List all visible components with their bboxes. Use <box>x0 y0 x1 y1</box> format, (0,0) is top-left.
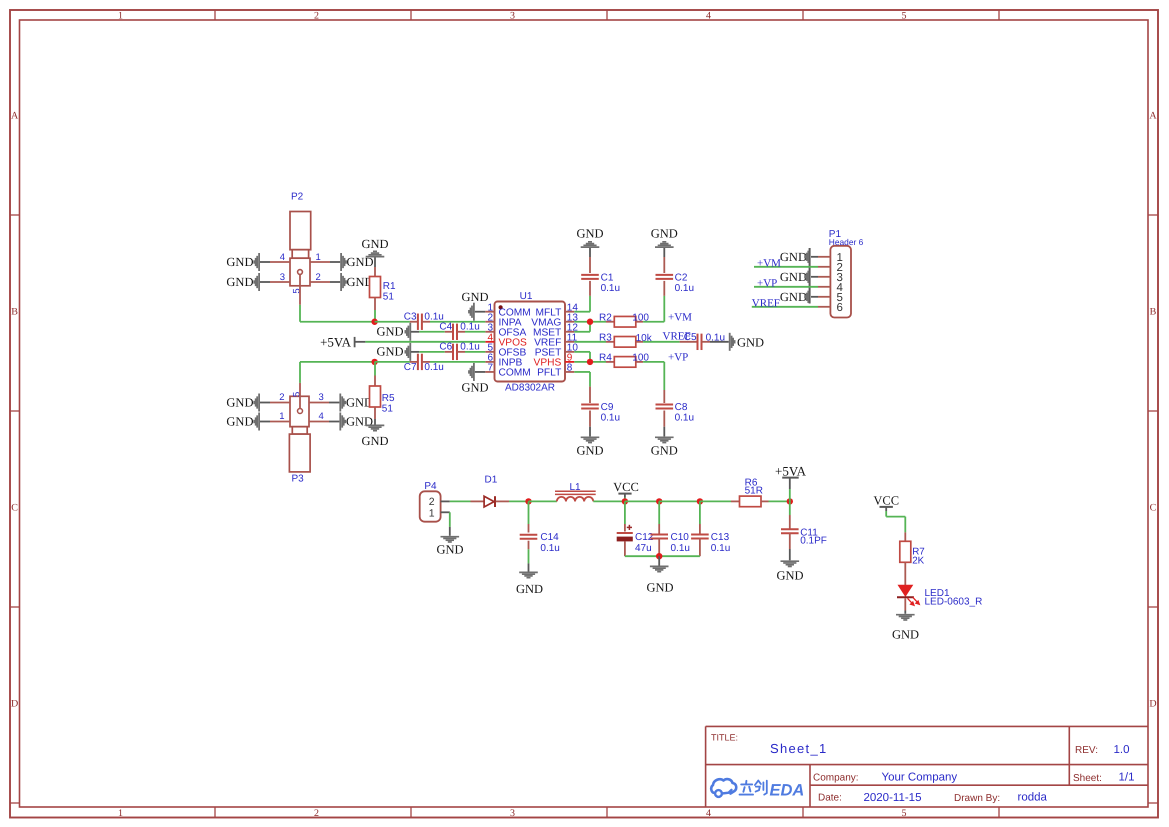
svg-text:GND: GND <box>461 380 488 394</box>
wire pin12 up to node <box>574 331 590 333</box>
connector P2 body <box>290 212 311 250</box>
svg-text:Company:: Company: <box>813 772 859 783</box>
C13 top wire <box>699 501 701 524</box>
wire VREF to P1 pin6 <box>752 306 818 308</box>
wire VCC to R7 <box>885 511 887 517</box>
capacitor C6 <box>452 344 454 360</box>
svg-text:EDA: EDA <box>770 781 805 799</box>
svg-text:GND: GND <box>892 628 919 642</box>
wire +5VA to U1 pin4 <box>355 341 366 343</box>
svg-text:3: 3 <box>319 392 324 403</box>
svg-text:2: 2 <box>314 11 319 22</box>
wire VCC to C10 node <box>625 500 659 502</box>
node C13 <box>697 498 703 504</box>
svg-text:Sheet:: Sheet: <box>1073 773 1102 784</box>
C2 bottom wire <box>663 281 665 296</box>
ground P2 pin1 <box>340 253 342 271</box>
R7 to LED wire <box>904 562 906 585</box>
capacitor C13 <box>691 534 709 536</box>
svg-text:P3: P3 <box>292 473 305 484</box>
svg-text:P4: P4 <box>424 481 437 492</box>
svg-text:VCC: VCC <box>873 494 899 508</box>
svg-text:1: 1 <box>316 252 321 263</box>
svg-text:4: 4 <box>706 11 711 22</box>
wire C13 to R6 <box>700 500 731 502</box>
svg-text:2: 2 <box>316 272 321 283</box>
wire +VP to P1 pin4 <box>754 286 818 288</box>
svg-text:47u: 47u <box>635 543 652 554</box>
wire R6 to +5VA node <box>761 500 769 502</box>
P3 pin wires <box>270 402 290 404</box>
svg-text:D1: D1 <box>485 475 498 486</box>
ground P2 pin2 <box>340 273 342 291</box>
svg-text:2K: 2K <box>912 555 924 566</box>
svg-text:R4: R4 <box>599 352 612 363</box>
ground P3 pin4 <box>339 413 341 431</box>
svg-text:Date:: Date: <box>818 792 842 803</box>
svg-text:C: C <box>11 503 18 514</box>
svg-text:0.1u: 0.1u <box>460 321 479 332</box>
ground below C8 <box>655 436 674 438</box>
svg-text:3: 3 <box>510 11 515 22</box>
capacitor C10 <box>650 534 668 536</box>
ground below C11 <box>781 560 800 562</box>
ground P2 pin4 <box>258 253 260 271</box>
C1 bottom wire <box>589 281 591 296</box>
P1 gnd bus bar <box>809 248 811 304</box>
wire R2 to +VM <box>636 321 643 323</box>
svg-text:0.1u: 0.1u <box>460 342 479 353</box>
svg-text:0.1u: 0.1u <box>675 283 694 294</box>
svg-text:2: 2 <box>314 808 319 819</box>
capacitor C8 <box>656 404 674 406</box>
resistor R1 <box>370 277 381 298</box>
svg-text:R2: R2 <box>599 312 612 323</box>
svg-text:C5: C5 <box>684 332 697 343</box>
svg-text:2: 2 <box>279 392 284 403</box>
resistor R2 <box>614 316 636 327</box>
node +5VA/C11 <box>787 498 793 504</box>
ground above C2 <box>655 246 674 248</box>
node D1/C14/L1 <box>525 498 531 504</box>
svg-text:COMM: COMM <box>499 368 531 379</box>
wire C6 to U1 pin5 <box>457 351 465 353</box>
ground right of C5 <box>729 333 731 351</box>
capacitor C11 <box>781 528 799 530</box>
U1 pin7 gnd wire <box>475 371 486 373</box>
LED LED1 <box>898 585 912 596</box>
node R5/P3/C7 <box>371 359 377 365</box>
wire R4 to +VP <box>636 361 643 363</box>
svg-text:GND: GND <box>651 226 678 240</box>
svg-text:6: 6 <box>837 302 843 314</box>
diode D1 <box>484 496 494 507</box>
wire node to L1 <box>529 500 557 502</box>
C13 bottom wire <box>699 539 701 557</box>
svg-text:C13: C13 <box>711 532 730 543</box>
resistor R4 <box>614 357 636 368</box>
wire U1 pin8 to C9 <box>574 371 590 373</box>
svg-text:LED-0603_R: LED-0603_R <box>925 597 983 608</box>
svg-text:+VM: +VM <box>757 257 781 269</box>
wire C10 to C13 node <box>659 500 700 502</box>
svg-text:0.1u: 0.1u <box>601 283 620 294</box>
ground below bus <box>650 565 669 567</box>
ground below R5 <box>366 424 385 426</box>
wire U1 pin9 to R4 <box>574 361 606 363</box>
svg-text:0.1u: 0.1u <box>675 412 694 423</box>
capacitor C5 <box>697 334 699 350</box>
svg-text:Sheet_1: Sheet_1 <box>770 741 828 756</box>
svg-text:4: 4 <box>280 252 285 263</box>
svg-text:VREF: VREF <box>752 297 780 309</box>
P4 pin2 wire <box>441 500 450 502</box>
svg-text:D: D <box>11 699 18 710</box>
svg-text:GND: GND <box>226 415 253 429</box>
wire R3 to C5 <box>636 341 643 343</box>
svg-text:GND: GND <box>226 255 253 269</box>
svg-text:GND: GND <box>377 345 404 359</box>
wire gnd to C6 <box>411 351 419 353</box>
svg-text:C9: C9 <box>601 402 614 413</box>
ground below P4 <box>441 536 460 538</box>
svg-text:A: A <box>1149 111 1157 122</box>
svg-text:GND: GND <box>226 396 253 410</box>
svg-text:L1: L1 <box>569 482 581 493</box>
svg-text:GND: GND <box>776 569 803 583</box>
svg-text:1/1: 1/1 <box>1119 771 1135 783</box>
ground P2 pin3 <box>258 273 260 291</box>
resistor R6 <box>740 496 762 507</box>
wire U1 pin11 to R3 <box>574 341 606 343</box>
svg-text:REV:: REV: <box>1075 745 1098 756</box>
svg-text:GND: GND <box>377 324 404 338</box>
svg-text:rodda: rodda <box>1018 791 1048 803</box>
svg-text:Drawn By:: Drawn By: <box>954 793 1000 804</box>
resistor R5 <box>370 386 381 407</box>
svg-text:1: 1 <box>118 11 123 22</box>
svg-text:GND: GND <box>516 582 543 596</box>
capacitor C7 <box>417 354 419 370</box>
svg-text:GND: GND <box>780 290 807 304</box>
node VMAG/MSET/R2 <box>587 319 593 325</box>
svg-text:51: 51 <box>382 404 394 415</box>
svg-text:0.1u: 0.1u <box>671 543 690 554</box>
svg-text:Header 6: Header 6 <box>829 237 864 247</box>
svg-text:GND: GND <box>436 543 463 557</box>
C12 bottom wire <box>624 541 626 556</box>
svg-text:B: B <box>1150 307 1157 318</box>
svg-text:3: 3 <box>280 272 285 283</box>
capacitor C1 <box>581 274 599 276</box>
svg-text:D: D <box>1149 699 1156 710</box>
C10 top wire <box>658 501 660 524</box>
svg-text:R3: R3 <box>599 333 612 344</box>
C14 bottom wire <box>528 541 530 550</box>
svg-text:Your Company: Your Company <box>882 771 958 783</box>
ground at U1 pin7 <box>473 363 475 381</box>
C9 bottom wire <box>589 411 591 427</box>
wire L1 to VCC node <box>593 500 624 502</box>
R1 top wire <box>374 258 376 268</box>
svg-text:U1: U1 <box>520 291 533 302</box>
svg-text:C2: C2 <box>675 272 688 283</box>
svg-text:B: B <box>11 307 18 318</box>
svg-text:GND: GND <box>226 275 253 289</box>
svg-text:R1: R1 <box>383 281 396 292</box>
svg-text:P2: P2 <box>291 192 304 203</box>
wire C5 to gnd <box>702 341 711 343</box>
grounds at P1 pins 1 3 5 <box>811 256 818 258</box>
svg-text:+VP: +VP <box>668 351 688 363</box>
LED to gnd wire <box>904 598 906 610</box>
svg-text:GND: GND <box>361 434 388 448</box>
P4 pin1 wire <box>441 511 450 513</box>
C2 top wire <box>663 248 665 257</box>
svg-text:3: 3 <box>510 808 515 819</box>
svg-text:VCC: VCC <box>613 480 639 494</box>
wire gnd to C4 <box>411 331 419 333</box>
svg-text:GND: GND <box>361 237 388 251</box>
wire C7 to U1 pin6 <box>422 361 430 363</box>
svg-text:0.1u: 0.1u <box>424 362 443 373</box>
svg-text:+VM: +VM <box>668 311 692 323</box>
svg-text:+VP: +VP <box>757 277 777 289</box>
ground below C9 <box>581 436 600 438</box>
svg-text:1.0: 1.0 <box>1114 744 1130 756</box>
svg-text:+5VA: +5VA <box>320 334 352 349</box>
svg-text:GND: GND <box>651 444 678 458</box>
svg-text:R5: R5 <box>382 393 395 404</box>
svg-text:51R: 51R <box>745 486 763 497</box>
capacitor C4 <box>452 324 454 340</box>
svg-text:TITLE:: TITLE: <box>711 733 738 743</box>
svg-text:+5VA: +5VA <box>775 464 807 479</box>
svg-text:51: 51 <box>383 292 395 303</box>
svg-text:AD8302AR: AD8302AR <box>505 383 555 394</box>
svg-text:0.1u: 0.1u <box>711 543 730 554</box>
node bus gnd <box>656 553 662 559</box>
svg-text:GND: GND <box>780 250 807 264</box>
lceda logo <box>711 779 736 793</box>
capacitor C3 <box>417 314 419 330</box>
node VCC/C12 <box>622 498 628 504</box>
svg-text:GND: GND <box>461 290 488 304</box>
svg-text:0.1PF: 0.1PF <box>800 536 827 547</box>
inductor L1 <box>555 490 596 492</box>
title block grid <box>706 725 1148 727</box>
svg-text:1: 1 <box>118 808 123 819</box>
wire node to C7 <box>375 361 410 363</box>
resistor R3 <box>614 337 636 348</box>
connector P4 body <box>420 491 441 521</box>
svg-text:GND: GND <box>576 226 603 240</box>
svg-text:GND: GND <box>646 581 673 595</box>
svg-text:4: 4 <box>706 808 711 819</box>
wire P2 to node <box>299 275 301 305</box>
wire C1 to U1 pin14 <box>574 311 590 313</box>
svg-text:C10: C10 <box>671 532 690 543</box>
svg-text:PFLT: PFLT <box>537 368 561 379</box>
node C10 <box>656 498 662 504</box>
C14 top wire <box>528 501 530 524</box>
wire C4 to U1 pin3 <box>457 331 465 333</box>
wire +VP to C8 <box>663 362 665 390</box>
svg-text:C4: C4 <box>439 321 452 332</box>
C8 bottom wire <box>663 411 665 427</box>
ground at OFSA <box>409 323 411 341</box>
svg-text:GND: GND <box>780 270 807 284</box>
svg-text:2: 2 <box>429 496 435 508</box>
svg-text:GND: GND <box>737 336 764 350</box>
capacitor C2 <box>656 274 674 276</box>
node R1/P2/C3 <box>371 319 377 325</box>
C1 top wire <box>589 248 591 257</box>
U1 pin1 gnd wire <box>475 311 486 313</box>
wire node to C3 <box>375 321 410 323</box>
ground P3 pin1 <box>258 413 260 431</box>
svg-text:4: 4 <box>319 411 324 422</box>
resistor R7 <box>900 541 911 562</box>
C11 bottom wire <box>789 533 791 549</box>
svg-text:C7: C7 <box>404 362 417 373</box>
C10 bottom wire <box>658 539 660 557</box>
svg-text:C1: C1 <box>601 272 614 283</box>
cap ground bus <box>625 555 700 557</box>
svg-text:2020-11-15: 2020-11-15 <box>864 792 922 804</box>
ground at U1 pin1 <box>473 303 475 321</box>
C12 top wire <box>624 501 626 524</box>
node PSET/VPHS/R4 <box>587 359 593 365</box>
ground below LED <box>896 614 915 616</box>
connector P1 body <box>830 246 851 318</box>
svg-text:C8: C8 <box>675 402 688 413</box>
D1 anode wire <box>471 500 485 502</box>
svg-text:C6: C6 <box>439 342 452 353</box>
ground above C1 <box>581 246 600 248</box>
C11 top wire <box>789 501 791 515</box>
svg-text:1: 1 <box>429 507 435 519</box>
P1 pin stubs and numbers <box>818 256 830 258</box>
wire C3 to U1 pin2 <box>422 321 430 323</box>
P2 pin wires <box>270 261 290 263</box>
svg-text:GND: GND <box>576 444 603 458</box>
ground P3 pin3 <box>339 394 341 412</box>
R5 bottom wire <box>374 407 376 419</box>
R1 bottom wire <box>374 298 376 311</box>
connector P3 body <box>290 396 309 426</box>
bus gnd wire <box>658 556 660 565</box>
op-amp U1 body <box>495 302 566 382</box>
capacitor C14 <box>520 534 538 536</box>
svg-text:A: A <box>11 111 19 122</box>
svg-text:0.1u: 0.1u <box>540 543 559 554</box>
ground below C14 <box>519 571 538 573</box>
svg-text:C: C <box>1150 503 1157 514</box>
wire +VM to P1 pin2 <box>754 266 818 268</box>
ground P3 pin2 <box>258 394 260 412</box>
wire pin10 down to node <box>574 351 590 353</box>
svg-text:0.1u: 0.1u <box>601 412 620 423</box>
capacitor C9 <box>581 404 599 406</box>
wire U1 pin13 to R2 <box>574 321 606 323</box>
svg-text:1: 1 <box>279 411 284 422</box>
svg-text:C14: C14 <box>540 532 559 543</box>
svg-text:5: 5 <box>902 808 907 819</box>
R5 top wire <box>374 362 376 376</box>
capacitor C12 electrolytic <box>617 532 633 534</box>
U1 pin stubs <box>485 311 494 313</box>
svg-text:C12: C12 <box>635 532 654 543</box>
wire P3 to node <box>299 383 301 409</box>
svg-text:C3: C3 <box>404 312 417 323</box>
D1 cathode wire <box>496 500 509 502</box>
svg-text:5: 5 <box>902 11 907 22</box>
ground at OFSB <box>409 343 411 361</box>
